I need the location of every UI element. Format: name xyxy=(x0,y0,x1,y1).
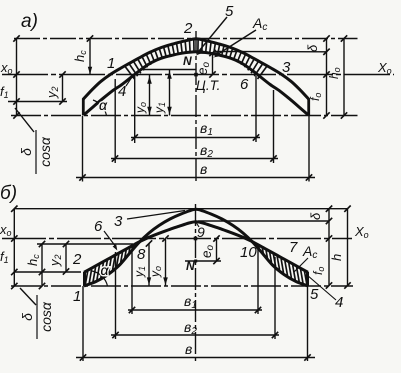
fig a left end face xyxy=(82,99,85,116)
fig b left end face xyxy=(83,272,86,286)
fig a y_2 dimension line xyxy=(62,75,64,102)
svg-text:6: 6 xyxy=(94,218,103,235)
figure b X_o centroidal axis xyxy=(2,238,352,240)
fig b dimension line b xyxy=(76,357,315,359)
fig b y_1 dimension line xyxy=(148,244,150,287)
fig a extension line for b2 left xyxy=(114,79,116,163)
svg-text:cosα: cosα xyxy=(37,136,53,167)
fig a right end face xyxy=(307,99,310,116)
svg-text:cosα: cosα xyxy=(38,301,54,332)
svg-text:в: в xyxy=(185,341,192,357)
fig a delta extension line (inner crown level) xyxy=(215,51,327,53)
fig b reference line (section top at support) xyxy=(37,243,133,245)
svg-text:б): б) xyxy=(0,183,17,204)
fig b curve F (section curve, inner at crown) xyxy=(84,222,308,273)
fig b extension line b2 right xyxy=(274,257,276,339)
fig a angle alpha arc xyxy=(93,100,107,116)
fig a reference line for y_1 xyxy=(140,69,196,71)
fig a extension line for b1 right xyxy=(255,76,257,142)
fig a e_o dimension line xyxy=(212,53,214,75)
figure b springing dash-dot line xyxy=(11,285,353,287)
svg-text:δ: δ xyxy=(305,44,320,52)
svg-text:Ц.Т.: Ц.Т. xyxy=(196,78,220,93)
figure a springing dash-dot line xyxy=(11,115,358,117)
fig a extension line for b2 right xyxy=(273,90,275,163)
fig b extension line at end-top level xyxy=(14,271,82,273)
fig b extension line b2 left xyxy=(115,252,117,339)
svg-text:h: h xyxy=(329,254,344,261)
figure a crown vertical centerline xyxy=(195,31,197,183)
svg-text:7: 7 xyxy=(289,239,298,256)
fig b left hatched zone xyxy=(85,271,87,284)
svg-text:5: 5 xyxy=(310,286,319,303)
fig b right dim line delta/f_o xyxy=(328,209,330,286)
fig b delta extension line (inner crown level) xyxy=(198,220,329,222)
fig b right end face xyxy=(306,272,309,286)
svg-text:α: α xyxy=(101,262,110,278)
fig b extension line b left xyxy=(82,286,84,361)
svg-text:10: 10 xyxy=(240,244,257,261)
svg-text:δ: δ xyxy=(19,313,35,321)
fig b h_c dimension line xyxy=(41,244,43,286)
fig b right hatched zone xyxy=(254,243,256,246)
fig a inner arc xyxy=(84,52,308,115)
fig b left dim line (x_o, f1) xyxy=(13,209,15,286)
fig b angle alpha arc xyxy=(92,271,108,286)
svg-text:2: 2 xyxy=(183,20,193,37)
svg-text:1: 1 xyxy=(73,288,81,305)
fig a left dim line (x_o, f1) xyxy=(16,39,18,116)
figure b crown vertical centerline xyxy=(195,204,197,361)
fig a hatched compressed zone A_c xyxy=(125,66,135,79)
fig a h_o dimension line xyxy=(343,39,345,116)
svg-text:4: 4 xyxy=(118,83,126,100)
fig b N-level line xyxy=(185,260,221,262)
fig b y_o dimension line xyxy=(165,239,167,287)
figure a top dash-dot line (crown tangent level) xyxy=(14,38,358,40)
fig a delta/cos(alpha) leader xyxy=(15,108,34,132)
fig b extension line b right xyxy=(307,286,309,361)
fig a extension line for b right xyxy=(308,116,310,182)
fig a right dim line delta/f_o xyxy=(326,39,328,116)
svg-text:а): а) xyxy=(21,11,38,32)
svg-text:3: 3 xyxy=(114,213,123,230)
centroid mark and label ЦТ (fig a) xyxy=(194,73,198,77)
fig a h_c dimension line xyxy=(89,39,91,75)
fig a e_o extension line at N level xyxy=(196,52,218,54)
svg-text:8: 8 xyxy=(137,246,146,263)
svg-text:δ: δ xyxy=(18,148,34,156)
fig a extension line at end-top level (f1) xyxy=(8,101,67,103)
fig b delta/cos(alpha) leader xyxy=(20,288,36,305)
fig a y_1 dimension line with arrows xyxy=(169,70,171,116)
fig b dimension line b1 xyxy=(128,309,262,311)
fig a outer arc xyxy=(83,39,309,100)
fig b h dimension line xyxy=(347,209,349,286)
svg-text:в: в xyxy=(200,161,207,177)
fig a dimension line b xyxy=(76,177,315,179)
svg-text:N: N xyxy=(183,54,192,68)
fig a y_o dimension line with arrows xyxy=(149,75,151,116)
figure a X_o centroidal axis xyxy=(2,74,394,76)
svg-text:δ: δ xyxy=(308,212,323,220)
fig b centroid dot xyxy=(194,237,198,241)
fig a extension line for b left xyxy=(82,116,84,182)
svg-text:1: 1 xyxy=(107,55,115,72)
fig b e_o dimension line xyxy=(216,239,218,262)
svg-text:2: 2 xyxy=(72,251,82,268)
fig b extension line b1 right xyxy=(257,249,259,314)
fig b curve S (arch axis, outer at crown) xyxy=(84,209,308,286)
fig a dimension line b2 xyxy=(111,158,278,160)
svg-text:α: α xyxy=(99,97,108,113)
svg-text:3: 3 xyxy=(282,59,291,76)
svg-text:6: 6 xyxy=(240,76,249,93)
fig b dimension line b2 xyxy=(111,334,279,336)
fig a fraction delta/cos(alpha) xyxy=(18,130,53,174)
fig b extension line b1 left xyxy=(131,246,133,314)
fig a dimension line b1 xyxy=(131,137,260,139)
fig b fraction delta/cos(alpha) xyxy=(19,295,54,339)
fig a extension line for b1 left xyxy=(134,76,136,143)
figure b top line (crown tangent) xyxy=(14,208,348,210)
fig b y_2 dimension line xyxy=(65,244,67,272)
svg-text:4: 4 xyxy=(335,294,343,311)
